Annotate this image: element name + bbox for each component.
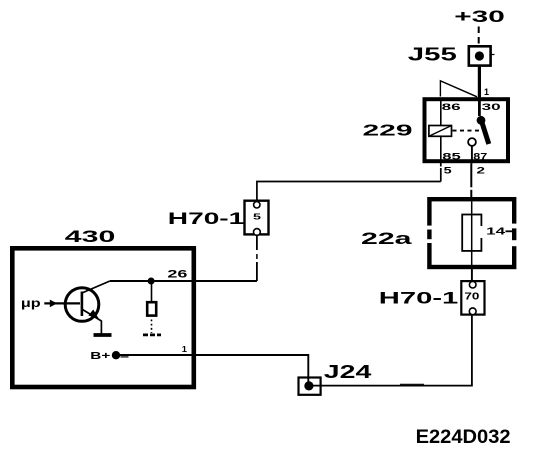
wire 22a to H70-1 pin 70 [471,266,473,281]
svg-text:22a: 22a [361,229,412,248]
connector J55 [469,46,495,65]
fuse 14 [462,215,484,251]
ground (emitter) [94,333,112,337]
svg-text:J55: J55 [408,45,457,65]
connector H70-1 (pin 5) [245,201,269,236]
svg-text:14: 14 [486,226,505,238]
relay armature pivot [477,116,486,125]
wire node 26 horizontal [110,280,257,282]
svg-text:H70-1: H70-1 [168,209,245,228]
wire relay pin 86 [440,99,442,126]
wire relay pin 2 to fuse box 22a [470,163,472,199]
svg-text:30: 30 [482,102,501,113]
wire node 26 to resistor [151,281,153,302]
wire J55 to relay pin 1 [478,66,481,99]
wire relay pin 85 [440,136,442,163]
node 26 junction dot [148,278,155,285]
connector J24 [299,378,321,395]
wire through fuse [471,201,473,265]
microprocessor input arrow [44,300,80,308]
connector H70-1 (pin 70) [461,281,484,315]
fuse box 22a [425,199,519,267]
relay 229 box [425,99,509,161]
svg-text:H70-1: H70-1 [379,289,459,308]
svg-text:229: 229 [363,122,413,139]
transistor Q1 [65,281,110,321]
wire H70-1 pin5 down to node 26 wire [256,234,258,281]
svg-text:87: 87 [473,151,487,162]
svg-text:B+: B+ [90,350,110,362]
svg-text:1: 1 [484,87,489,97]
resistor R1 [147,302,156,315]
wire J24 to H70-1 pin 70 [309,315,472,386]
ground (resistor, dashed) [143,334,161,337]
svg-text:5: 5 [253,212,261,222]
svg-text:+30: +30 [454,7,505,26]
svg-text:70: 70 [464,292,480,303]
relay armature [482,121,489,144]
relay coil [429,126,452,137]
wire +30 to J55 (dashed) [478,27,480,45]
svg-text:2: 2 [477,166,486,176]
dashed link coil to armature [453,130,482,132]
wedge marker (triangle above relay) [440,81,477,97]
svg-text:1: 1 [182,344,187,354]
wire B+ to J24 [116,355,308,384]
control unit 430 box [12,248,194,387]
svg-text:E224D032: E224D032 [416,427,511,448]
svg-text:μp: μp [21,296,41,310]
svg-text:430: 430 [65,227,116,246]
wire relay pin 30 [478,99,481,116]
svg-text:5: 5 [444,166,452,176]
wire relay pin 87 [471,146,473,163]
svg-text:85: 85 [442,151,462,162]
wire emitter to ground [100,321,102,334]
svg-text:J24: J24 [324,362,372,382]
svg-text:26: 26 [167,268,187,280]
node B+ [112,351,120,359]
wire relay pin 5 to connector H70-1 pin 5 [440,163,442,167]
relay contact 87 [468,138,476,146]
wire resistor to ground (dotted) [151,320,153,334]
svg-text:86: 86 [442,102,461,113]
